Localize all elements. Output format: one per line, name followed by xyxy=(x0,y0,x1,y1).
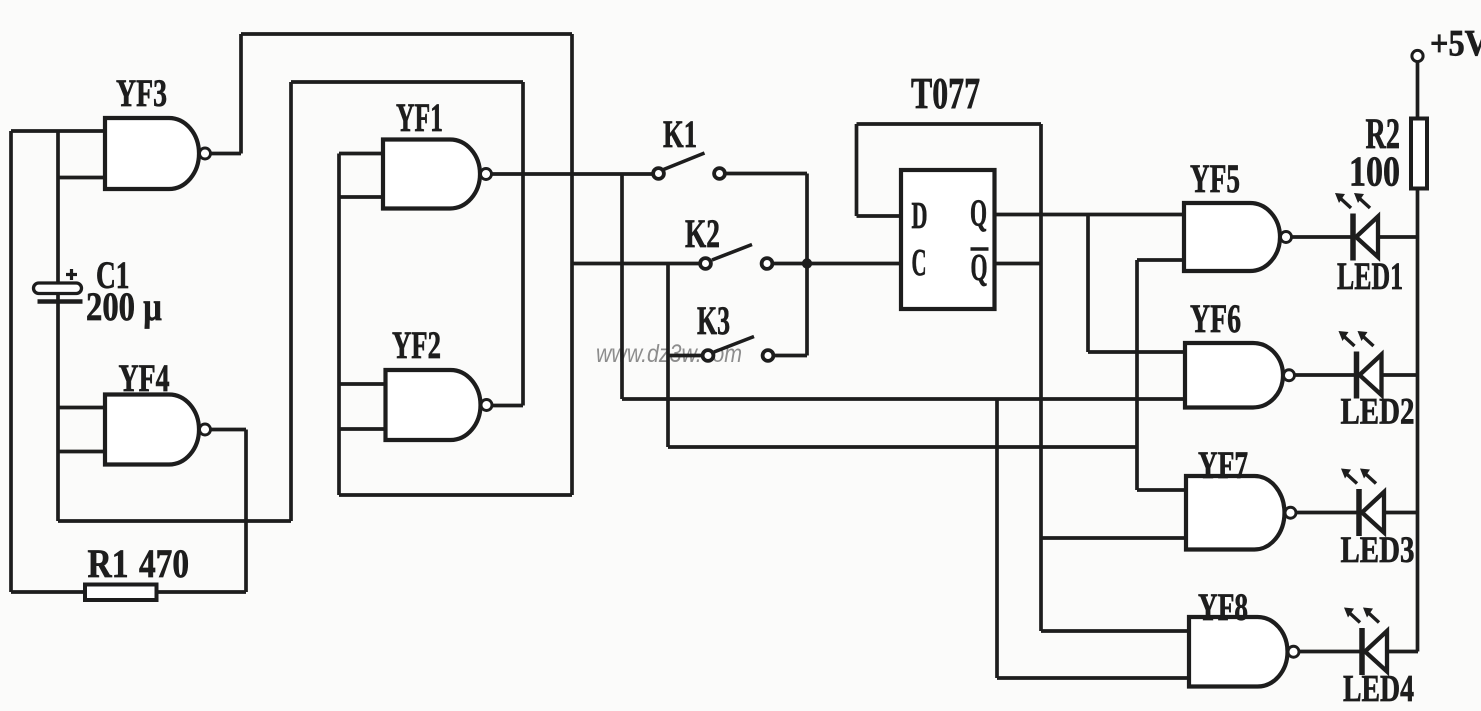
svg-text:YF8: YF8 xyxy=(1198,586,1248,629)
svg-text:LED4: LED4 xyxy=(1343,668,1414,706)
svg-text:K3: K3 xyxy=(697,298,730,343)
svg-text:LED3: LED3 xyxy=(1341,530,1415,571)
svg-text:YF2: YF2 xyxy=(392,324,441,367)
svg-text:YF7: YF7 xyxy=(1198,444,1248,487)
svg-text:Q: Q xyxy=(971,247,988,289)
svg-text:YF6: YF6 xyxy=(1190,296,1241,341)
svg-text:Q: Q xyxy=(970,193,987,235)
svg-text:+5V: +5V xyxy=(1430,24,1481,65)
svg-text:LED2: LED2 xyxy=(1341,392,1415,433)
svg-text:YF1: YF1 xyxy=(396,95,443,140)
svg-text:C: C xyxy=(912,242,927,284)
svg-text:470: 470 xyxy=(139,541,189,586)
svg-text:YF5: YF5 xyxy=(1190,156,1240,201)
svg-text:K2: K2 xyxy=(685,211,720,256)
svg-text:LED1: LED1 xyxy=(1337,255,1403,298)
svg-text:T077: T077 xyxy=(911,69,980,118)
svg-text:YF4: YF4 xyxy=(119,357,170,400)
svg-text:YF3: YF3 xyxy=(116,72,167,115)
svg-text:R1: R1 xyxy=(88,541,129,586)
svg-text:100: 100 xyxy=(1349,150,1400,196)
svg-text:K1: K1 xyxy=(663,113,697,156)
svg-text:D: D xyxy=(912,195,928,237)
svg-text:200 µ: 200 µ xyxy=(86,284,162,329)
